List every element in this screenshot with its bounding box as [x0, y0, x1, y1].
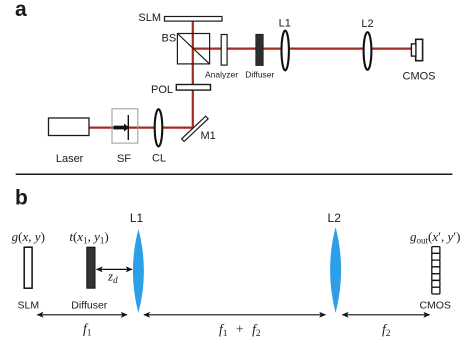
- CMOS camera front plate (panel a): [411, 44, 416, 56]
- arrow f1 (SLM to L1): [37, 314, 127, 316]
- collimating lens CL: [155, 109, 163, 146]
- svg-text:SLM: SLM: [18, 300, 40, 312]
- svg-text:gout(x′, y′): gout(x′, y′): [410, 229, 460, 246]
- SF pinhole plate (vertical line): [127, 115, 129, 140]
- svg-text:f1: f1: [83, 321, 92, 339]
- svg-text:POL: POL: [151, 84, 173, 96]
- svg-text:L1: L1: [130, 211, 144, 225]
- spatial filter SF box: [112, 109, 138, 143]
- beam: BS right through Analyzer, Diffuser, L1, L2 to CMOS: [193, 47, 412, 49]
- svg-text:CL: CL: [152, 153, 166, 165]
- beam: laser to mirror M1: [89, 126, 196, 128]
- svg-text:Diffuser: Diffuser: [71, 300, 107, 312]
- svg-text:L2: L2: [361, 18, 373, 30]
- analyzer bar: [221, 35, 227, 66]
- separator line between panels: [16, 173, 453, 175]
- svg-text:BS: BS: [162, 33, 177, 45]
- lens L1 (panel a): [282, 31, 289, 71]
- svg-text:CMOS: CMOS: [403, 71, 436, 83]
- lens L1 (panel b, blue): [133, 229, 144, 313]
- svg-text:SLM: SLM: [138, 12, 161, 24]
- svg-text:b: b: [15, 186, 28, 209]
- SLM plate (panel b): [24, 247, 32, 288]
- diffuser plate (panel b): [87, 247, 95, 288]
- lens L2 (panel a): [364, 32, 372, 70]
- SF focusing cone (arrow): [114, 124, 130, 132]
- svg-text:M1: M1: [201, 130, 216, 142]
- svg-text:g(x, y): g(x, y): [12, 229, 45, 244]
- lens L2 (panel b, blue): [330, 227, 341, 313]
- svg-text:Analyzer: Analyzer: [205, 70, 238, 80]
- arrow f1+f2 (L1 to L2): [144, 314, 326, 316]
- SLM bar: [165, 17, 223, 22]
- svg-text:t(x1, y1): t(x1, y1): [69, 229, 108, 246]
- mirror M1: [182, 116, 208, 141]
- svg-text:f2: f2: [382, 322, 391, 340]
- laser box: [49, 118, 90, 136]
- diffuser (panel a): [256, 34, 263, 65]
- svg-text:a: a: [15, 0, 27, 21]
- svg-text:SF: SF: [117, 153, 131, 165]
- svg-text:f1+f2: f1+f2: [219, 322, 261, 340]
- CMOS sensor stack (panel b): [432, 247, 440, 294]
- svg-text:L2: L2: [328, 211, 342, 225]
- polarizer POL bar: [176, 85, 210, 91]
- svg-text:Laser: Laser: [56, 153, 84, 165]
- arrow f2 (L2 to CMOS): [342, 314, 429, 316]
- CMOS camera body (panel a): [416, 39, 423, 60]
- svg-text:L1: L1: [279, 18, 291, 30]
- svg-text:Diffuser: Diffuser: [245, 70, 274, 80]
- beam splitter BS: [177, 34, 209, 64]
- svg-text:CMOS: CMOS: [419, 300, 451, 312]
- beam: mirror M1 up through POL and BS to SLM: [192, 21, 194, 131]
- arrow z_d (diffuser to L1): [97, 268, 133, 270]
- svg-text:zd: zd: [107, 269, 118, 286]
